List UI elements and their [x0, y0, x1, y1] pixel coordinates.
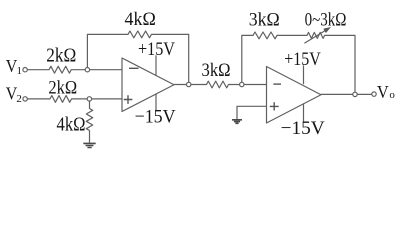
- svg-text:+15V: +15V: [284, 49, 321, 70]
- svg-text:o: o: [389, 89, 395, 101]
- node B junction of R2 and R4: [87, 97, 91, 101]
- svg-text:4kΩ: 4kΩ: [125, 9, 156, 30]
- wire -15V stub U1: [155, 94, 157, 111]
- svg-text:V: V: [377, 82, 389, 102]
- svg-text:−15V: −15V: [281, 118, 325, 139]
- svg-text:4kΩ: 4kΩ: [57, 114, 86, 136]
- terminal V1: [23, 68, 27, 72]
- op-amp U1 minus sign: [129, 67, 139, 69]
- potentiometer arrow: [305, 30, 327, 44]
- node U2 output: [353, 92, 357, 96]
- node A junction of R1 and feedback 1: [85, 68, 89, 72]
- svg-text:2kΩ: 2kΩ: [46, 45, 76, 67]
- svg-text:2: 2: [16, 93, 22, 105]
- wire V2 input row with resistor R2: [27, 96, 122, 103]
- svg-text:3kΩ: 3kΩ: [202, 60, 231, 81]
- wire feedback loop 1 with resistor R3 4k: [87, 31, 188, 85]
- wire U2 output to Vo: [321, 93, 372, 95]
- op-amp U1: [122, 58, 174, 112]
- svg-text:3kΩ: 3kΩ: [249, 9, 280, 30]
- resistor R4 4k vertical: [86, 99, 92, 143]
- op-amp U2 minus sign: [273, 83, 281, 85]
- op-amp U1 plus sign: [124, 95, 133, 104]
- ground G2: [232, 120, 242, 124]
- op-amp U2: [267, 67, 322, 124]
- wire -15V stub U2: [303, 104, 305, 122]
- svg-text:2kΩ: 2kΩ: [48, 77, 77, 98]
- wire +15V stub U1: [155, 56, 157, 76]
- wire V1 input row with resistor R1: [27, 66, 122, 73]
- svg-text:−15V: −15V: [135, 106, 176, 127]
- terminal Vo: [372, 92, 376, 96]
- wire +15V stub U2: [303, 66, 305, 84]
- op-amp U2 plus sign: [270, 102, 279, 110]
- svg-text:+15V: +15V: [138, 39, 175, 60]
- svg-text:V: V: [6, 56, 18, 76]
- wire feedback loop 2 with resistor R6 3k and potentiometer RP 0~3k: [242, 32, 355, 94]
- wire output of U1 to U2 minus input with resistor R5 3k: [174, 81, 267, 88]
- ground G1: [83, 143, 95, 147]
- terminal V2: [23, 97, 27, 101]
- node U1 output: [187, 82, 191, 86]
- node U2 minus junction: [240, 82, 244, 86]
- potentiometer arrowhead: [323, 27, 331, 33]
- wire U2 plus input to ground: [237, 106, 267, 119]
- svg-text:0~3kΩ: 0~3kΩ: [305, 10, 347, 31]
- svg-text:1: 1: [17, 65, 23, 77]
